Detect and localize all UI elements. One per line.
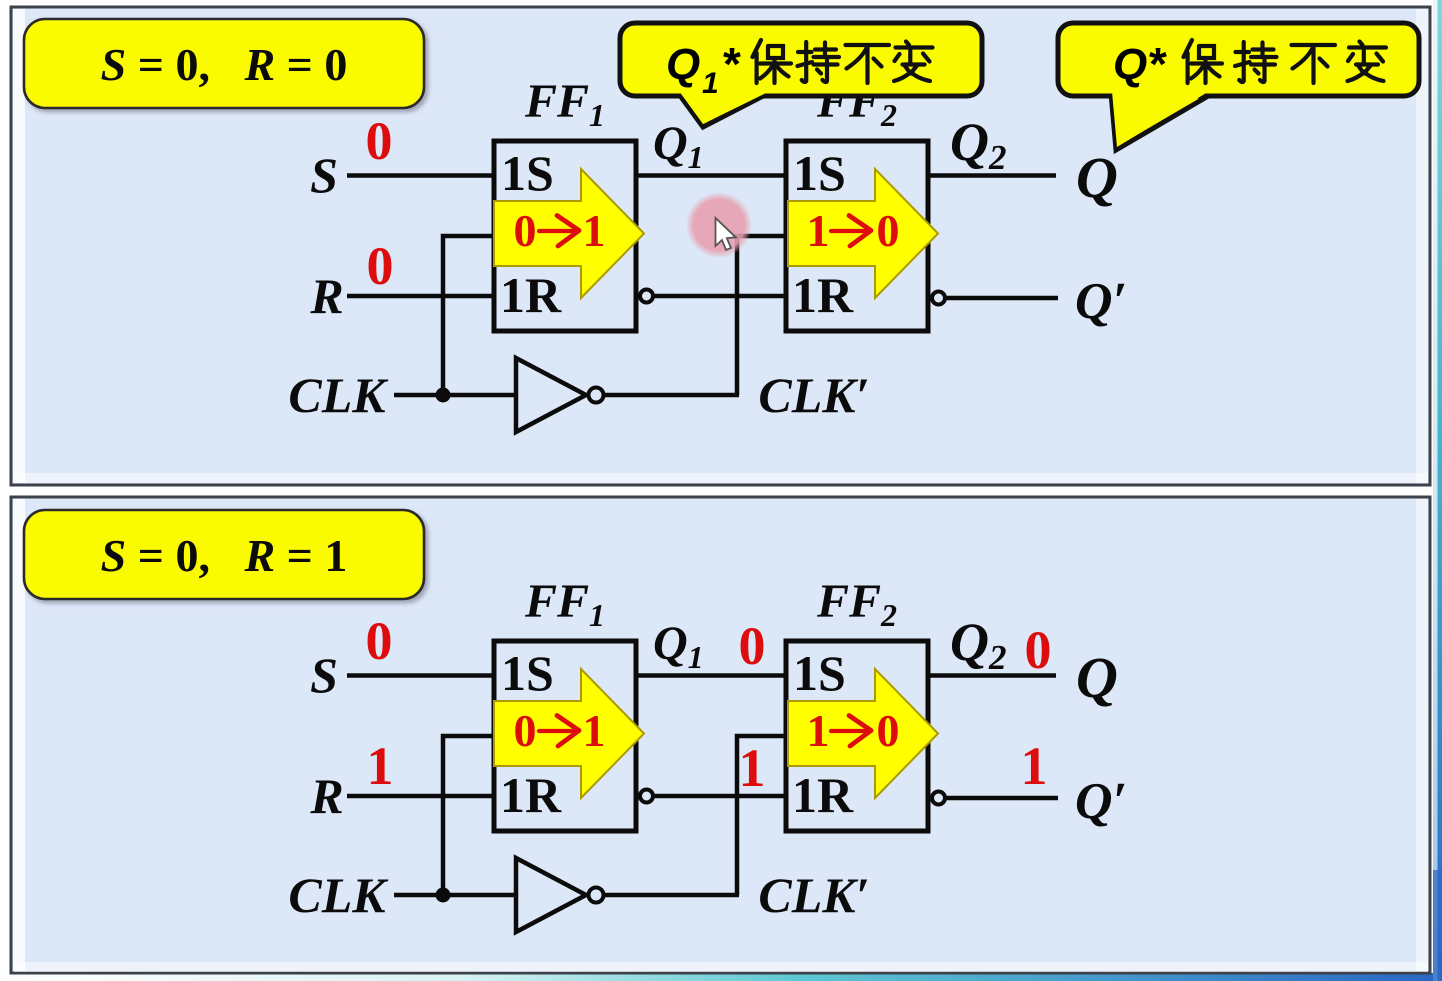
svg-text:S = 0, R = 0: S = 0, R = 0 <box>101 39 348 90</box>
svg-text:Q′: Q′ <box>1075 773 1127 830</box>
svg-text:1R: 1R <box>500 767 562 823</box>
wire CLK' vertical to FF2 clock <box>737 236 786 395</box>
svg-text:Q: Q <box>1076 645 1118 710</box>
wire CLK <box>394 893 516 898</box>
svg-text:0: 0 <box>514 205 537 256</box>
wire S input <box>347 673 494 678</box>
svg-text:1R: 1R <box>500 267 562 323</box>
svg-text:Q: Q <box>1076 145 1118 210</box>
svg-text:CLK: CLK <box>288 867 389 923</box>
svg-text:1: 1 <box>367 736 394 796</box>
wire Q1 <box>636 173 786 178</box>
inverter G1 <box>516 858 586 932</box>
FF1 transition arrow <box>494 669 644 798</box>
svg-text:0: 0 <box>366 111 393 171</box>
wire CLK' <box>604 393 739 398</box>
svg-text:CLK: CLK <box>288 367 389 423</box>
FF2 transition arrow <box>788 169 938 298</box>
svg-text:1: 1 <box>583 705 606 756</box>
wire Q2 output <box>928 173 1056 178</box>
wire CLK' vertical to FF2 clock <box>737 736 786 895</box>
svg-text:S = 0, R = 1: S = 0, R = 1 <box>101 530 348 581</box>
svg-text:1: 1 <box>702 67 719 100</box>
svg-text:1: 1 <box>807 705 830 756</box>
svg-text:Q: Q <box>666 40 700 89</box>
svg-text:1R: 1R <box>792 767 854 823</box>
svg-text:0: 0 <box>366 611 393 671</box>
wire FF1 Q' to FF2 1R <box>653 294 786 299</box>
svg-text:0: 0 <box>1025 620 1052 680</box>
panel 2 frame <box>11 497 1430 973</box>
wire R input <box>347 794 494 799</box>
svg-text:1: 1 <box>739 738 766 798</box>
svg-text:0: 0 <box>367 236 394 296</box>
flip-flop FF2 box <box>786 141 928 331</box>
svg-text:1: 1 <box>807 205 830 256</box>
panel 1 frame <box>11 7 1430 485</box>
svg-text:1S: 1S <box>793 145 846 201</box>
FF1 Q' output bubble <box>640 290 653 303</box>
callout Q1* remains unchanged <box>620 23 982 127</box>
condition label box S=0 R=0 <box>24 19 424 108</box>
wire S input <box>347 173 494 178</box>
svg-text:1S: 1S <box>793 645 846 701</box>
svg-text:1S: 1S <box>501 145 554 201</box>
wire CLK branch vertical to FF1 clock <box>443 736 494 895</box>
svg-text:R: R <box>309 768 343 824</box>
flip-flop FF2 box <box>786 641 928 831</box>
junction CLK <box>436 888 451 903</box>
wire Q1 <box>636 673 786 678</box>
wire Q' output <box>945 296 1058 301</box>
svg-text:1: 1 <box>583 205 606 256</box>
svg-text:CLK′: CLK′ <box>758 367 869 423</box>
wire CLK branch vertical to FF1 clock <box>443 236 494 395</box>
svg-text:0: 0 <box>877 705 900 756</box>
svg-text:Q: Q <box>1113 40 1147 89</box>
wire CLK <box>394 393 516 398</box>
mouse cursor <box>716 218 736 250</box>
svg-text:S: S <box>310 647 338 703</box>
inverter G1 output bubble <box>589 888 604 903</box>
svg-text:R: R <box>309 268 343 324</box>
FF2 transition arrow <box>788 669 938 798</box>
wire FF1 Q' to FF2 1R <box>653 794 786 799</box>
svg-text:0: 0 <box>877 205 900 256</box>
svg-text:CLK′: CLK′ <box>758 867 869 923</box>
callout Q* remains unchanged <box>1058 23 1419 150</box>
FF2 Q' output bubble <box>932 792 945 805</box>
svg-text:1: 1 <box>1021 736 1048 796</box>
svg-text:*: * <box>723 38 741 90</box>
svg-text:0: 0 <box>514 705 537 756</box>
svg-text:S: S <box>310 147 338 203</box>
bottom edge strip <box>0 973 1442 981</box>
wire CLK' <box>604 893 739 898</box>
right edge strip <box>1433 0 1442 981</box>
wire R input <box>347 294 494 299</box>
wire Q2 output <box>928 673 1056 678</box>
svg-text:0: 0 <box>739 616 766 676</box>
FF2 Q' output bubble <box>932 292 945 305</box>
wire Q' output <box>945 796 1058 801</box>
inverter G1 <box>516 358 586 432</box>
flip-flop FF1 box <box>494 141 636 331</box>
junction CLK <box>436 388 451 403</box>
cursor highlight <box>686 192 752 258</box>
flip-flop FF1 box <box>494 641 636 831</box>
inverter G1 output bubble <box>589 388 604 403</box>
svg-text:1S: 1S <box>501 645 554 701</box>
condition label box S=0 R=1 <box>24 510 424 599</box>
svg-text:1R: 1R <box>792 267 854 323</box>
FF1 Q' output bubble <box>640 790 653 803</box>
svg-text:*: * <box>1149 38 1167 90</box>
FF1 transition arrow <box>494 169 644 298</box>
svg-text:Q′: Q′ <box>1075 273 1127 330</box>
